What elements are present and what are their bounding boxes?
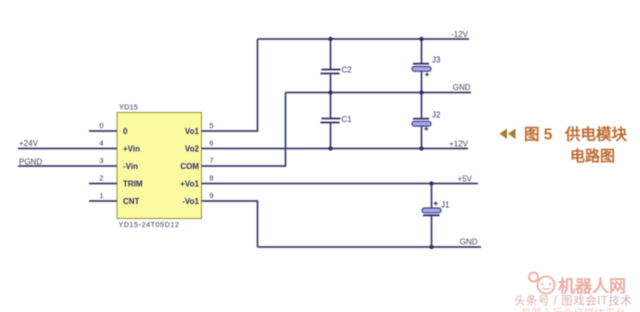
electrolytic capacitor J3 bbox=[412, 39, 441, 93]
svg-text:CNT: CNT bbox=[123, 197, 140, 206]
svg-text:YD15: YD15 bbox=[119, 103, 138, 112]
svg-text:YD15-24T05D12: YD15-24T05D12 bbox=[119, 222, 180, 229]
wire pin8 +Vo1 +5V rail bbox=[202, 183, 479, 185]
svg-text:7: 7 bbox=[209, 156, 213, 165]
svg-text:C2: C2 bbox=[342, 66, 353, 75]
electrolytic capacitor J1 bbox=[422, 184, 450, 248]
junction dot +12V/J2 bbox=[419, 146, 423, 150]
capacitor C1 bbox=[321, 93, 353, 149]
svg-text:供电模块: 供电模块 bbox=[564, 125, 628, 144]
wire -12V rail bbox=[258, 38, 470, 40]
svg-text:Vo2: Vo2 bbox=[185, 145, 200, 154]
svg-text:GND: GND bbox=[460, 238, 478, 247]
caption arrows bbox=[500, 129, 516, 140]
junction dot GNDbottom/J1 bbox=[429, 245, 433, 249]
svg-text:+Vin: +Vin bbox=[123, 145, 140, 154]
svg-text:3: 3 bbox=[99, 156, 103, 165]
svg-text:0: 0 bbox=[123, 127, 128, 136]
wire PGND input to pin 3 bbox=[18, 165, 117, 167]
junction dot GND/C1 bbox=[328, 90, 332, 94]
svg-text:5: 5 bbox=[209, 121, 213, 130]
wire +24V input to pin 4 bbox=[18, 148, 117, 150]
junction dot -12V/C2 bbox=[328, 37, 332, 41]
wire GND rail bottom bbox=[258, 246, 482, 248]
wire pin6 Vo2 +12V rail bbox=[202, 148, 469, 150]
IC U1 YD15-24T05D12 body bbox=[117, 103, 202, 230]
svg-text:+24V: +24V bbox=[19, 139, 39, 148]
wire pin5 Vo1 to -12V rail bbox=[202, 39, 258, 131]
wire pin1 stub bbox=[89, 200, 117, 202]
svg-text:电路图: 电路图 bbox=[570, 147, 615, 165]
svg-text:9: 9 bbox=[209, 191, 213, 200]
svg-text:+Vo1: +Vo1 bbox=[180, 180, 199, 189]
svg-text:GND: GND bbox=[453, 83, 471, 92]
svg-text:6: 6 bbox=[209, 139, 213, 148]
wire pin9 -Vo1 to bottom GND rail bbox=[202, 201, 258, 247]
svg-text:PGND: PGND bbox=[19, 158, 42, 167]
watermark logo bbox=[529, 273, 555, 294]
svg-text:-Vo1: -Vo1 bbox=[182, 197, 199, 206]
electrolytic capacitor J2 bbox=[412, 93, 441, 149]
svg-text:4: 4 bbox=[99, 139, 103, 148]
svg-text:0: 0 bbox=[99, 121, 103, 130]
wire pin2 stub bbox=[89, 183, 117, 185]
wire pin0 stub bbox=[89, 130, 117, 132]
svg-text:Vo1: Vo1 bbox=[185, 127, 200, 136]
svg-text:J2: J2 bbox=[432, 111, 441, 120]
svg-text:+5V: +5V bbox=[458, 175, 473, 184]
svg-text:COM: COM bbox=[180, 162, 199, 171]
wire GND rail middle bbox=[286, 92, 472, 94]
junction dot +12V/C1 bbox=[328, 146, 332, 150]
IC U1 pin labels left column bbox=[123, 127, 143, 206]
svg-text:8: 8 bbox=[209, 174, 213, 183]
svg-text:头条号 / 图戏会IT技术: 头条号 / 图戏会IT技术 bbox=[514, 294, 632, 308]
IC U1 pin labels right column bbox=[180, 127, 199, 206]
svg-text:C1: C1 bbox=[342, 115, 353, 124]
svg-text:机器人网: 机器人网 bbox=[558, 276, 626, 296]
svg-text:J3: J3 bbox=[432, 56, 441, 65]
svg-text:+12V: +12V bbox=[449, 140, 469, 149]
svg-text:2: 2 bbox=[99, 174, 103, 183]
wire pin7 COM to GND rail bbox=[202, 93, 286, 167]
capacitor C2 bbox=[321, 39, 353, 93]
junction dot -12V/J3 bbox=[419, 37, 423, 41]
svg-text:-Vin: -Vin bbox=[123, 162, 138, 171]
svg-text:图 5: 图 5 bbox=[524, 126, 553, 144]
svg-text:1: 1 bbox=[99, 191, 103, 200]
svg-text:TRIM: TRIM bbox=[123, 180, 143, 189]
svg-text:-12V: -12V bbox=[451, 30, 469, 39]
junction dot +5V/J1 bbox=[429, 181, 433, 185]
svg-text:J1: J1 bbox=[441, 201, 450, 210]
junction dot GND/J2 bbox=[419, 90, 423, 94]
